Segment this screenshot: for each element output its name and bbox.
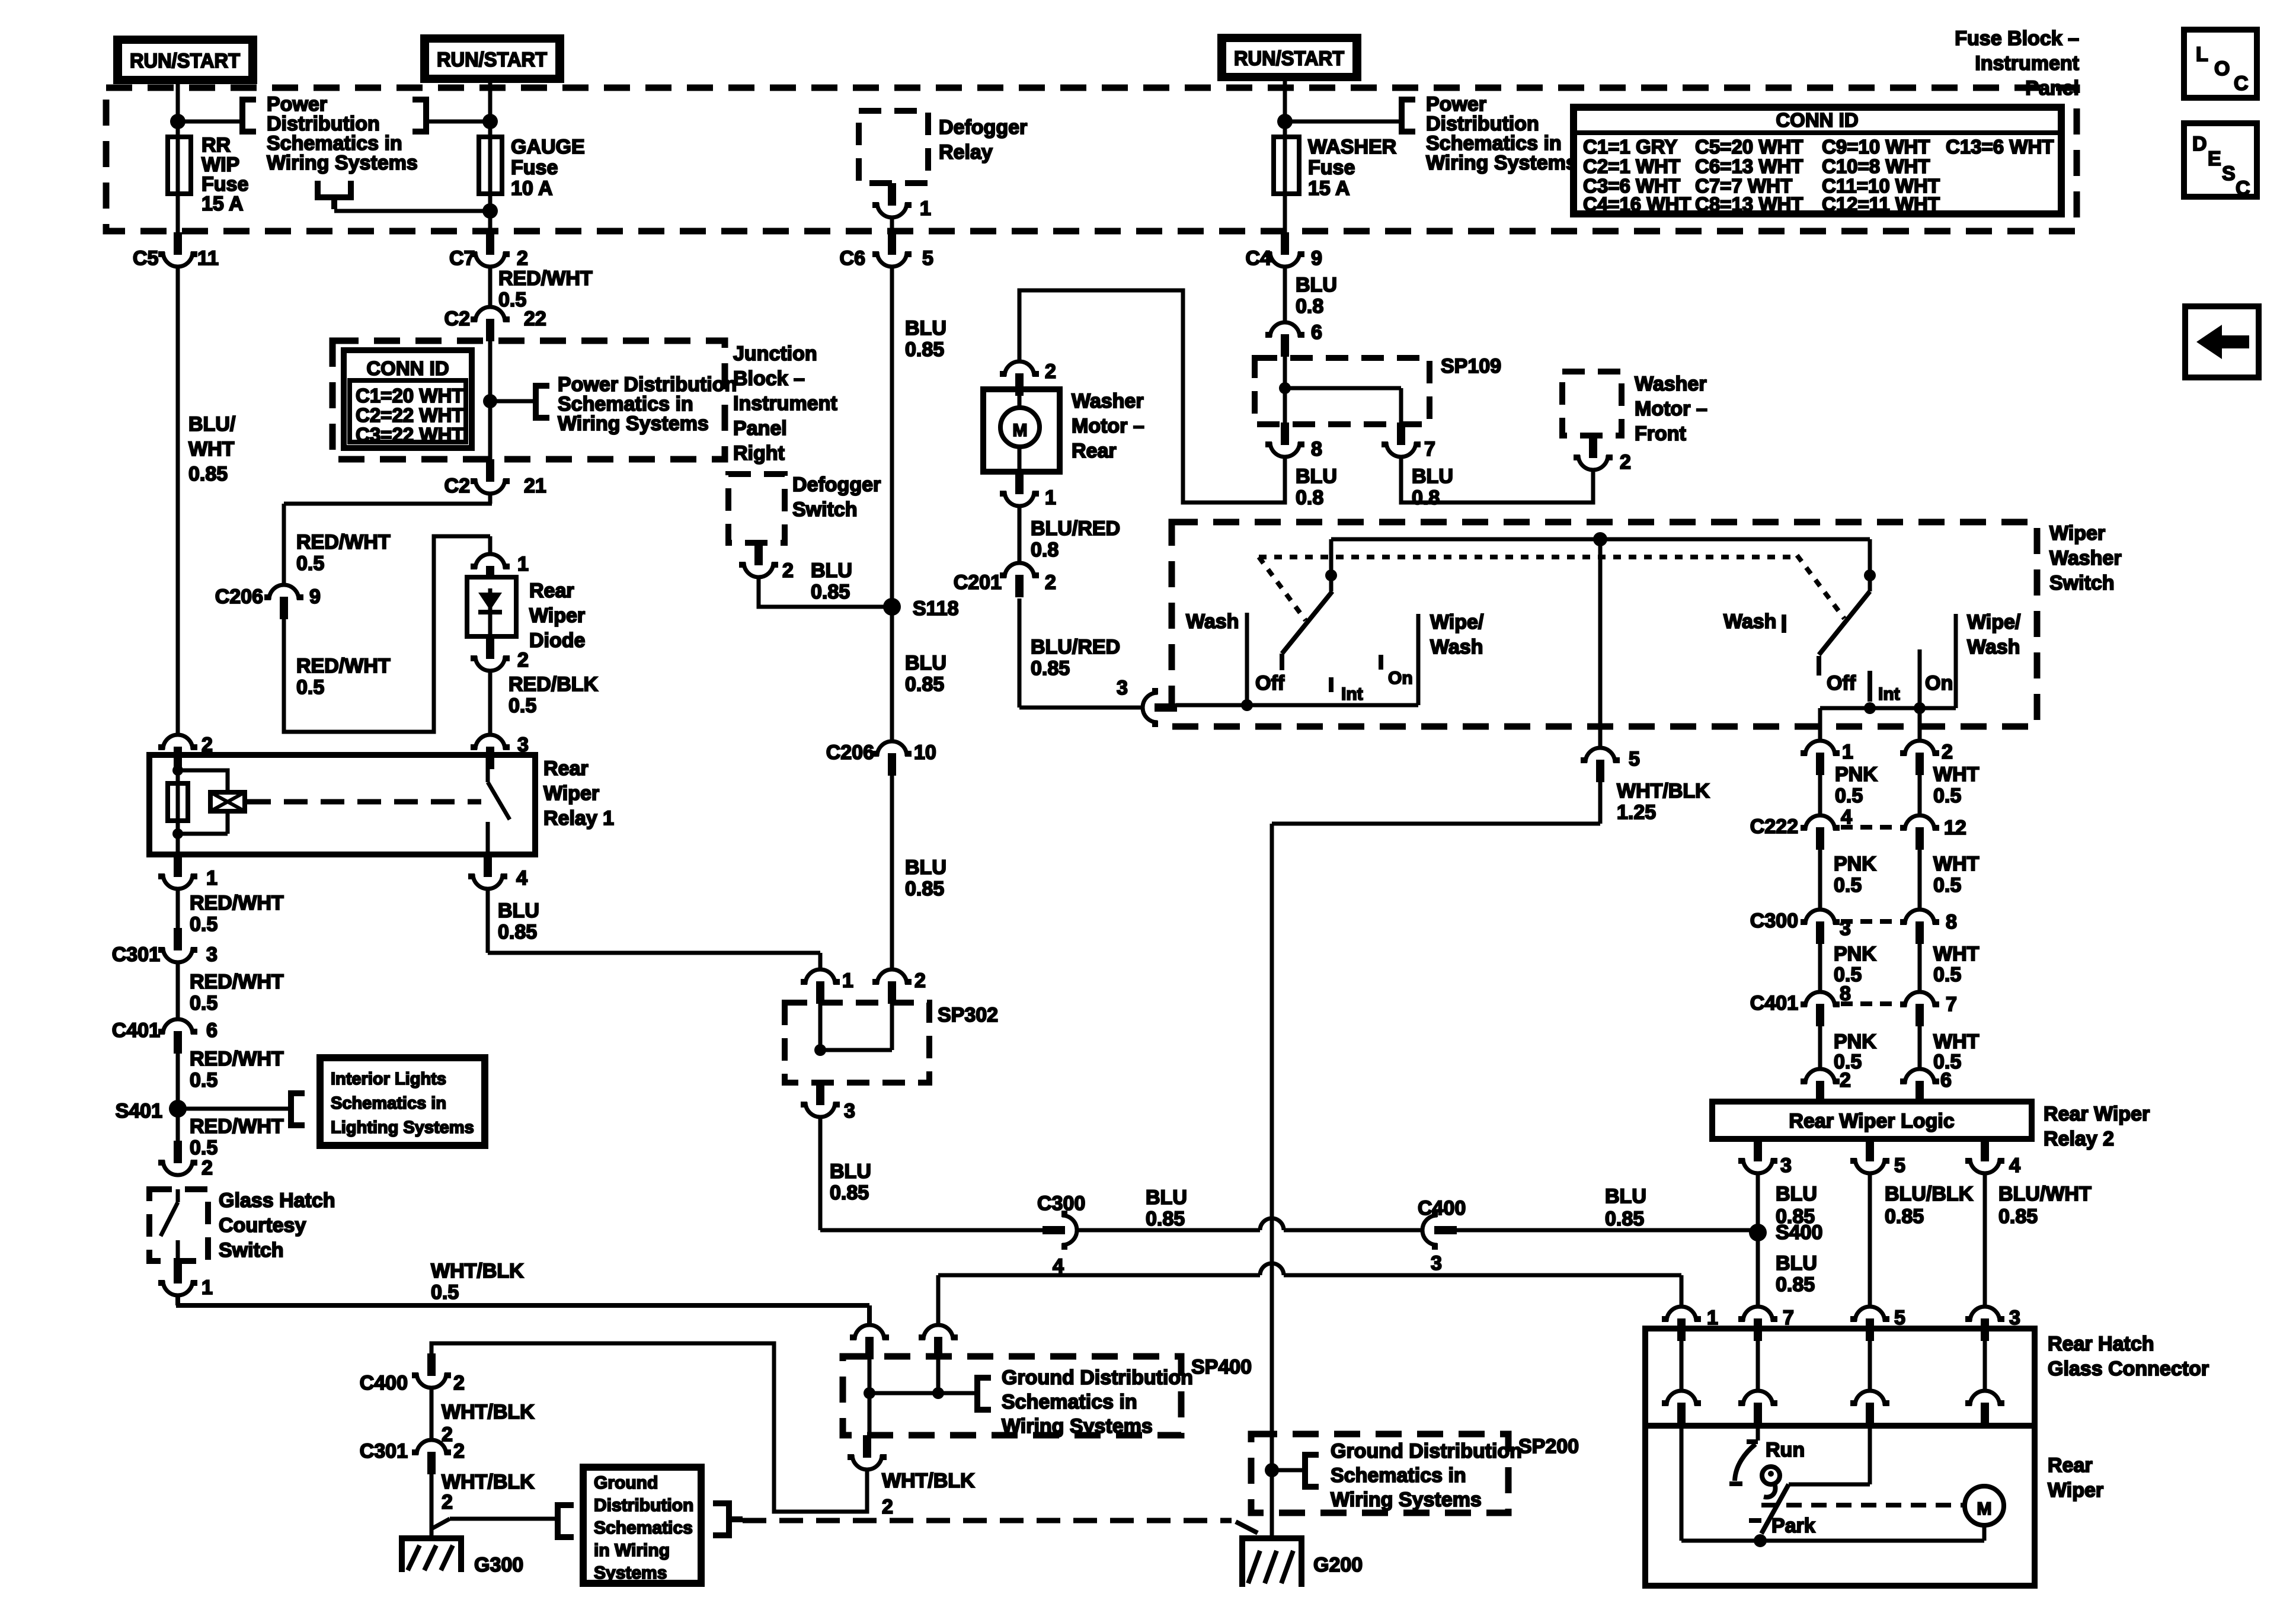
svg-text:C3=22 WHT: C3=22 WHT — [356, 424, 463, 446]
svg-text:C300: C300 — [1750, 910, 1798, 932]
svg-text:S400: S400 — [1776, 1221, 1822, 1244]
svg-text:9: 9 — [1311, 247, 1322, 270]
svg-text:Schematics in: Schematics in — [1331, 1464, 1466, 1487]
connector relay1 pin 3 — [471, 735, 510, 769]
rear wiper left wire — [1680, 1426, 1684, 1541]
wire relay2 pin4 to hatch pin 3 — [1983, 1175, 1987, 1307]
dotted blade right — [1797, 555, 1844, 619]
svg-text:0.85: 0.85 — [905, 673, 944, 696]
label power distribution schematics 1 — [267, 93, 418, 174]
svg-text:RED/WHT: RED/WHT — [498, 267, 593, 290]
diode symbol — [478, 588, 502, 636]
fuse RR WIP 15A — [168, 137, 191, 194]
svg-text:3: 3 — [1117, 677, 1128, 699]
svg-text:WASHER: WASHER — [1308, 136, 1396, 158]
svg-text:0.5: 0.5 — [509, 694, 536, 717]
svg-text:1: 1 — [206, 867, 218, 889]
svg-text:BLU: BLU — [1412, 465, 1453, 488]
connector C201 pin 2 — [1000, 563, 1039, 597]
connector C4 pin 9 — [1265, 232, 1304, 267]
wire C2-21 elbow to C206 — [284, 495, 492, 585]
svg-text:C222: C222 — [1750, 815, 1798, 838]
svg-text:0.5: 0.5 — [498, 289, 526, 311]
svg-text:11: 11 — [197, 247, 219, 270]
svg-text:5: 5 — [922, 247, 933, 270]
label Rear Wiper — [2048, 1454, 2103, 1502]
wire C206 loop to diode — [284, 536, 490, 732]
svg-text:Rear Hatch: Rear Hatch — [2048, 1333, 2154, 1355]
connector hatch mid 7 — [1738, 1391, 1777, 1425]
back arrow box — [2185, 306, 2259, 377]
svg-text:WHT: WHT — [188, 438, 235, 460]
connector C5 pin 11 — [158, 232, 197, 267]
bracket power distribution junction — [533, 383, 549, 421]
svg-text:SP109: SP109 — [1441, 355, 1501, 377]
label BLU 0.85 — [811, 559, 852, 603]
run contact — [1729, 1442, 1758, 1484]
svg-text:Front: Front — [1635, 422, 1686, 445]
svg-text:3: 3 — [517, 734, 529, 756]
junction block dashed box — [332, 341, 725, 459]
svg-text:Rear Wiper Logic: Rear Wiper Logic — [1789, 1110, 1954, 1132]
RUN/START box 1 — [113, 36, 257, 84]
svg-text:Wiring Systems: Wiring Systems — [1002, 1415, 1153, 1438]
defogger switch dashed box — [728, 474, 785, 543]
wire WHT/BLK return SP400 to hatch pin 1 — [938, 1275, 1681, 1325]
right Wipe/Wash contact line — [1954, 614, 1958, 708]
svg-text:On: On — [1925, 672, 1953, 694]
svg-text:4: 4 — [2009, 1154, 2020, 1177]
svg-text:Wiper: Wiper — [543, 782, 599, 805]
C300 pair dashed line — [1841, 919, 1899, 924]
svg-text:Block –: Block – — [733, 367, 805, 390]
wire from RUN/START 3 — [1283, 81, 1287, 232]
left wiper blade — [1282, 591, 1332, 670]
RUN/START box 3 — [1217, 34, 1361, 81]
right wiper blade — [1819, 591, 1870, 676]
svg-text:L: L — [2196, 43, 2208, 66]
connector hatch mid 1 — [1662, 1391, 1701, 1425]
svg-text:SP400: SP400 — [1191, 1356, 1252, 1378]
svg-text:0.5: 0.5 — [190, 992, 218, 1014]
svg-text:C206: C206 — [826, 741, 874, 764]
connector wiper switch pin 3 (horizontal) — [1143, 688, 1177, 727]
svg-text:C: C — [2236, 177, 2250, 200]
bracket right of G300 box — [713, 1500, 743, 1538]
wire SP109 pin8 to washer motor rear — [1019, 290, 1285, 502]
wire PNK to C222 — [1818, 775, 1822, 815]
svg-text:0.5: 0.5 — [190, 913, 218, 936]
svg-text:Courtesy: Courtesy — [219, 1214, 306, 1237]
svg-text:Instrument: Instrument — [1975, 52, 2079, 75]
svg-text:0.5: 0.5 — [190, 1137, 218, 1159]
CONN ID table junction block — [344, 350, 472, 448]
label power distribution schematics junction — [558, 373, 737, 435]
svg-text:BLU: BLU — [905, 856, 946, 879]
svg-text:BLU: BLU — [830, 1160, 871, 1183]
svg-text:RED/WHT: RED/WHT — [190, 1048, 284, 1070]
right On contact line — [1918, 649, 1922, 708]
label RED/WHT 0.5 — [190, 971, 284, 1014]
svg-text:C6=13 WHT: C6=13 WHT — [1695, 155, 1803, 177]
label BLU 0.8 — [1412, 465, 1453, 509]
label WHT/BLK 2 — [442, 1471, 535, 1513]
svg-text:Run: Run — [1766, 1439, 1805, 1461]
svg-text:1: 1 — [517, 553, 529, 575]
label BLU 0.85 — [1146, 1186, 1187, 1230]
connector C206 pin 10 — [872, 741, 912, 776]
svg-text:BLU: BLU — [811, 559, 852, 582]
relay1 switch — [488, 755, 510, 854]
DESC box — [2184, 123, 2257, 200]
ground distribution reference box G300 — [583, 1467, 701, 1583]
svg-text:22: 22 — [524, 308, 546, 330]
svg-text:0.8: 0.8 — [1412, 486, 1440, 509]
wire washer rear pin1 to C201 — [1018, 508, 1022, 563]
defogger relay dashed box — [859, 111, 928, 183]
svg-text:Off: Off — [1827, 672, 1856, 694]
wire WHT/BLK 0.5 to SP400 — [176, 1297, 869, 1325]
label BLU 0.85 — [905, 856, 946, 900]
label Rear Wiper Diode — [529, 580, 585, 652]
svg-text:8: 8 — [1311, 438, 1322, 460]
svg-text:BLU: BLU — [1776, 1252, 1817, 1275]
left Int tick — [1329, 677, 1334, 692]
svg-text:G200: G200 — [1313, 1554, 1363, 1576]
svg-text:5: 5 — [1629, 748, 1640, 770]
U bracket under text — [315, 181, 354, 209]
junction right pivot — [1864, 569, 1876, 581]
label BLU 0.85 — [1776, 1183, 1817, 1228]
label ground distribution schematics SP200 — [1331, 1440, 1522, 1511]
svg-text:C401: C401 — [112, 1019, 160, 1042]
svg-text:9: 9 — [309, 585, 321, 608]
rear wiper diode box — [467, 577, 516, 636]
SP400 junction right — [932, 1387, 944, 1399]
svg-text:Relay 2: Relay 2 — [2044, 1128, 2114, 1150]
wire C301 to C401 — [176, 964, 180, 1019]
connector switch pin 1 — [1801, 741, 1840, 775]
relay1 resistor — [168, 783, 188, 821]
SP109 dashed box — [1255, 358, 1430, 424]
svg-text:0.85: 0.85 — [830, 1182, 869, 1204]
connector diode pin 2 — [471, 636, 510, 671]
svg-text:Int: Int — [1878, 684, 1900, 704]
svg-text:RED/WHT: RED/WHT — [190, 892, 284, 914]
label RED/BLK 0.5 — [509, 673, 599, 717]
connector switch pin 2 — [1900, 741, 1939, 775]
svg-text:3: 3 — [206, 943, 218, 966]
svg-text:Fuse: Fuse — [1308, 156, 1355, 179]
connector C400 pin 2 — [412, 1353, 451, 1388]
svg-text:Wiring Systems: Wiring Systems — [558, 412, 709, 435]
svg-text:G300: G300 — [474, 1554, 523, 1576]
label PNK 0.5 — [1834, 853, 1876, 897]
label Fuse Block - Instrument Panel — [1955, 27, 2079, 100]
label WHT/BLK 1.25 — [1617, 780, 1710, 824]
svg-text:Diode: Diode — [529, 629, 585, 652]
dashed run to G200 — [743, 1518, 1232, 1523]
label PNK 0.5 — [1835, 763, 1878, 807]
svg-text:Off: Off — [1255, 672, 1285, 694]
svg-text:Rear: Rear — [529, 580, 574, 602]
svg-text:Interior Lights: Interior Lights — [331, 1070, 446, 1089]
connector SP302 pin 2 — [872, 969, 912, 1004]
LOC box — [2184, 30, 2257, 98]
connector washer motor rear pin 2 — [1000, 361, 1039, 396]
dotted linkage line — [1259, 555, 1797, 559]
junction right On — [1914, 702, 1926, 714]
svg-text:WHT: WHT — [1933, 943, 1980, 965]
wire C7 to C2 — [488, 268, 493, 307]
ground G300 — [399, 1535, 464, 1572]
connector C301 pin 2 — [412, 1440, 451, 1474]
svg-text:0.8: 0.8 — [1031, 539, 1059, 561]
wire S401 branch — [178, 1107, 289, 1111]
connector SP302 pin 1 — [801, 969, 840, 1004]
svg-text:0.85: 0.85 — [1031, 657, 1070, 680]
washer motor rear box — [983, 389, 1060, 472]
label WHT/BLK 2 — [882, 1470, 975, 1518]
svg-text:Defogger: Defogger — [939, 116, 1027, 139]
svg-text:BLU: BLU — [1296, 465, 1337, 488]
svg-text:12: 12 — [1944, 817, 1966, 839]
svg-text:E: E — [2208, 148, 2221, 170]
label power distribution schematics 3 — [1426, 93, 1577, 174]
RUN/START box 2 — [420, 34, 564, 83]
svg-text:C401: C401 — [1750, 992, 1798, 1014]
C222 pair dashed line — [1841, 825, 1899, 830]
rear wiper run column wire — [1756, 1426, 1760, 1441]
connector relay2 pin 4 — [1965, 1139, 2004, 1173]
svg-text:1: 1 — [202, 1276, 213, 1299]
svg-text:WHT/BLK: WHT/BLK — [882, 1470, 975, 1492]
svg-text:0.5: 0.5 — [1834, 874, 1862, 897]
wire pin5 to run contact — [1789, 1426, 1870, 1484]
connector SP400 top right — [919, 1325, 958, 1359]
label WHT 0.5 — [1933, 763, 1980, 807]
switch cam symbol — [1762, 1467, 1780, 1497]
park contact tick — [1749, 1518, 1761, 1523]
relay1 junction bottom — [172, 828, 183, 839]
label PNK 0.5 — [1834, 943, 1876, 986]
label PNK 0.5 — [1834, 1030, 1876, 1073]
svg-text:CONN ID: CONN ID — [1776, 109, 1858, 131]
svg-text:C300: C300 — [1037, 1192, 1085, 1215]
svg-text:GAUGE: GAUGE — [511, 136, 585, 158]
svg-text:6: 6 — [1940, 1069, 1952, 1092]
svg-text:Ground Distribution: Ground Distribution — [1331, 1440, 1522, 1462]
connector hatch pin 7 — [1738, 1307, 1777, 1341]
relay1 left wire — [176, 755, 180, 854]
svg-text:Systems: Systems — [594, 1563, 667, 1583]
wire C301 to G300 — [430, 1474, 434, 1538]
splice S401 — [169, 1100, 187, 1118]
wire U bracket to gauge wire — [334, 209, 490, 213]
svg-text:Wash: Wash — [1430, 636, 1483, 658]
svg-text:Lighting Systems: Lighting Systems — [331, 1118, 474, 1137]
connector washer motor front pin 2 — [1574, 436, 1613, 470]
svg-text:2: 2 — [782, 559, 794, 582]
svg-text:Switch: Switch — [792, 498, 858, 521]
svg-text:0.85: 0.85 — [1605, 1208, 1644, 1230]
svg-text:Wiring Systems: Wiring Systems — [267, 152, 418, 174]
svg-text:Wipe/: Wipe/ — [1430, 611, 1484, 633]
svg-text:0.85: 0.85 — [1776, 1273, 1815, 1296]
svg-text:C400: C400 — [360, 1372, 408, 1394]
svg-text:Wipe/: Wipe/ — [1967, 611, 2021, 633]
svg-text:15 A: 15 A — [202, 193, 244, 215]
label Junction Block - Instrument Panel Right — [733, 343, 837, 465]
connector relay1 pin 1 — [158, 854, 197, 889]
svg-text:Junction: Junction — [733, 343, 817, 365]
connector SP400 top left — [850, 1325, 889, 1359]
connector SP109 pin 6 — [1265, 322, 1304, 357]
svg-text:0.8: 0.8 — [1296, 486, 1323, 509]
svg-text:Wiper: Wiper — [529, 604, 585, 627]
svg-text:Instrument: Instrument — [733, 392, 837, 415]
svg-text:C: C — [2234, 72, 2249, 95]
svg-text:2: 2 — [517, 649, 529, 671]
svg-text:Wash: Wash — [1723, 610, 1776, 633]
splice S118 — [883, 598, 901, 616]
label BLU 0.8 — [1296, 274, 1337, 318]
svg-text:Switch: Switch — [2049, 572, 2115, 594]
svg-text:M: M — [1977, 1499, 1992, 1519]
wire C6 down to SP302 conn 2 — [890, 268, 894, 969]
right blade pivot — [1868, 539, 1872, 591]
splice S400 — [1749, 1224, 1767, 1241]
relay1 linkage dashed — [247, 799, 481, 805]
svg-text:Wash: Wash — [1967, 636, 2020, 658]
label BLU 0.85 below S400 — [1776, 1252, 1817, 1296]
label BLU/RED 0.8 — [1031, 517, 1120, 561]
label RED/WHT 0.5 — [190, 892, 284, 936]
svg-text:C301: C301 — [360, 1440, 408, 1462]
svg-text:RUN/START: RUN/START — [437, 49, 547, 71]
wire switch pin1 down — [1818, 708, 1822, 741]
wire relay2 pin3 to hatch pin 7 — [1756, 1175, 1760, 1307]
svg-text:C2: C2 — [445, 475, 470, 497]
label BLU 0.8 — [1296, 465, 1337, 509]
label BLU 0.85 — [498, 900, 539, 943]
connector C206 pin 9 — [264, 585, 303, 619]
svg-text:PNK: PNK — [1834, 853, 1876, 875]
svg-text:Glass Hatch: Glass Hatch — [219, 1189, 335, 1212]
SP200 junction — [1265, 1463, 1279, 1477]
svg-text:0.8: 0.8 — [1296, 295, 1323, 318]
bracket power distribution left — [240, 97, 256, 135]
svg-text:0.5: 0.5 — [190, 1069, 218, 1092]
connector relay2 pin 5 — [1850, 1139, 1889, 1173]
svg-text:2: 2 — [517, 247, 528, 270]
svg-text:C400: C400 — [1418, 1197, 1466, 1219]
svg-text:6: 6 — [1311, 321, 1322, 344]
connector washer motor rear pin 1 — [1000, 472, 1039, 506]
svg-text:Rear: Rear — [1072, 440, 1117, 462]
svg-text:SP302: SP302 — [938, 1004, 998, 1026]
svg-text:C1=1 GRY: C1=1 GRY — [1583, 136, 1677, 158]
bracket ground distribution SP400 — [975, 1375, 991, 1413]
svg-text:2: 2 — [442, 1491, 453, 1513]
label WHT 0.5 — [1933, 943, 1980, 986]
wire C400 to C301 — [430, 1390, 434, 1440]
bracket interior lights — [289, 1090, 305, 1128]
label RR WIP Fuse 15 A — [202, 134, 248, 215]
wire C201 to wiper switch pin 3 — [1019, 598, 1143, 708]
svg-text:Fuse: Fuse — [511, 156, 558, 179]
label Defogger Relay — [939, 116, 1027, 164]
motor linkage dashed — [1761, 1503, 1963, 1507]
svg-text:2: 2 — [1840, 1069, 1851, 1092]
svg-text:O: O — [2214, 57, 2230, 80]
svg-text:C201: C201 — [954, 571, 1002, 594]
svg-text:C2=1 WHT: C2=1 WHT — [1583, 155, 1680, 177]
connector relay2 pin 3 — [1738, 1139, 1777, 1173]
svg-text:Wiring Systems: Wiring Systems — [1331, 1489, 1482, 1511]
label BLU 0.85 — [905, 652, 946, 696]
label RED/WHT 0.5 — [296, 531, 391, 575]
connector C6 pin 5 — [872, 232, 912, 267]
svg-text:BLU/BLK: BLU/BLK — [1885, 1183, 1974, 1205]
svg-text:C9=10 WHT: C9=10 WHT — [1822, 136, 1930, 158]
svg-text:2: 2 — [914, 969, 926, 992]
label RED/WHT 0.5 — [498, 267, 593, 311]
svg-text:Relay: Relay — [939, 141, 993, 164]
svg-text:C2=22 WHT: C2=22 WHT — [356, 404, 463, 426]
junction — [482, 114, 498, 129]
rear wiper logic box — [1712, 1102, 2032, 1139]
wire relay2 pin5 to hatch pin 5 — [1868, 1175, 1872, 1307]
hatch internal wire 3 — [1983, 1329, 1987, 1391]
svg-text:1: 1 — [842, 969, 853, 992]
label BLU/BLK 0.85 — [1885, 1183, 1974, 1228]
connector hatch mid 5 — [1850, 1391, 1889, 1425]
wire bracket to gauge fuse wire — [428, 120, 490, 124]
svg-text:8: 8 — [1946, 911, 1957, 933]
svg-text:PNK: PNK — [1834, 943, 1876, 965]
svg-text:in Wiring: in Wiring — [594, 1541, 670, 1560]
connector C400 pin 3 (horizontal) — [1422, 1211, 1457, 1250]
svg-text:1: 1 — [920, 197, 931, 220]
svg-text:Rear: Rear — [2048, 1454, 2093, 1477]
wire relay1 pin4 to SP302 conn 1 — [488, 891, 820, 969]
bracket power distribution right — [412, 97, 428, 135]
wire BLU/WHT down left column — [176, 268, 180, 735]
rear wiper motor — [1965, 1486, 2004, 1525]
svg-text:Panel: Panel — [733, 417, 787, 440]
label Wiper Washer Switch — [2049, 522, 2122, 594]
SP400 internal wires — [869, 1359, 975, 1435]
hop over WHT/BLK vertical — [1260, 1218, 1284, 1230]
label Rear Wiper Relay 2 — [2044, 1103, 2150, 1150]
svg-text:0.85: 0.85 — [905, 338, 944, 361]
svg-text:Glass Connector: Glass Connector — [2048, 1358, 2209, 1380]
connector C300 pin 4 (horizontal) — [1043, 1211, 1077, 1250]
svg-text:C206: C206 — [215, 585, 263, 608]
svg-text:0.5: 0.5 — [296, 676, 324, 699]
svg-text:Washer: Washer — [2049, 547, 2122, 569]
junction left pivot — [1325, 569, 1337, 581]
svg-text:C10=8 WHT: C10=8 WHT — [1822, 155, 1930, 177]
bracket ground distribution SP200 — [1303, 1452, 1319, 1490]
svg-text:PNK: PNK — [1835, 763, 1878, 786]
wire switch pin2 down — [1918, 708, 1922, 741]
wire SP109 pin7 to washer motor front — [1401, 459, 1593, 502]
junction top feed — [1593, 532, 1607, 546]
hop over WHT/BLK vertical — [1260, 1263, 1284, 1275]
fuse GAUGE 10A — [479, 137, 502, 194]
